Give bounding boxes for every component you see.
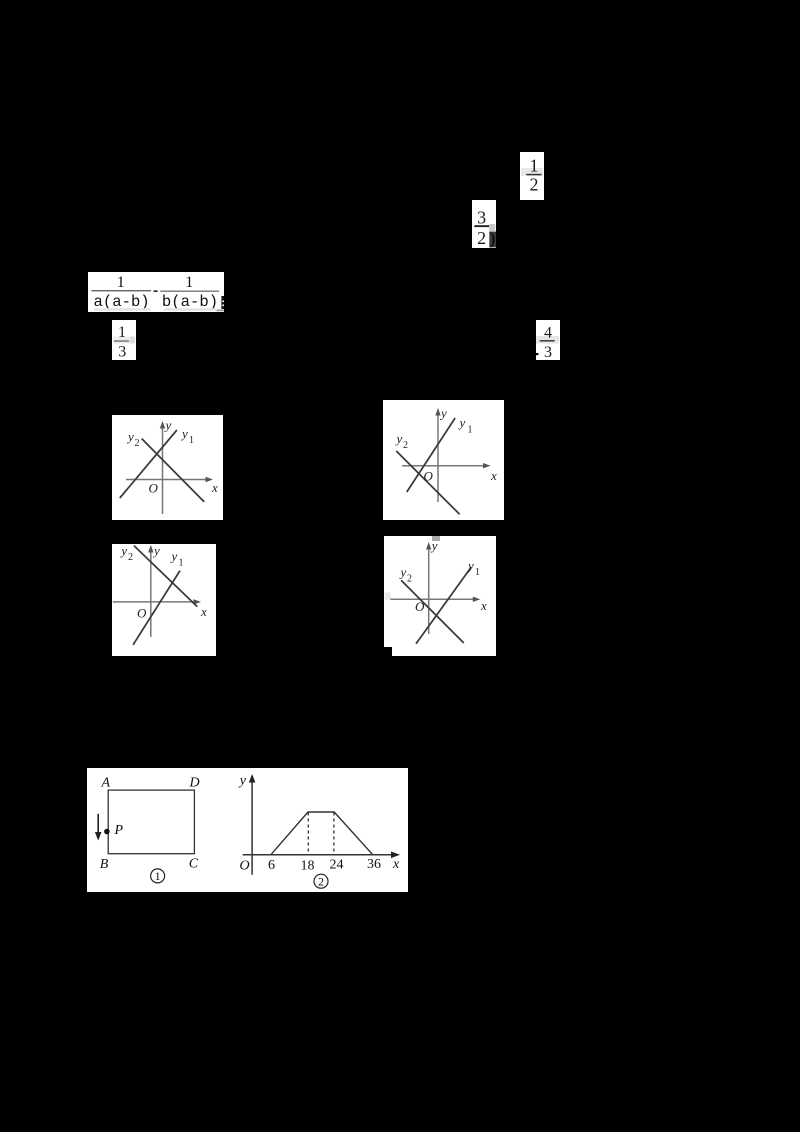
svg-text:O: O: [137, 606, 147, 621]
svg-text:y: y: [439, 406, 447, 421]
line y2 falling: [396, 451, 459, 514]
svg-text:O: O: [149, 481, 159, 496]
x-axis: [126, 479, 209, 481]
graph C (bottom-left option): [112, 544, 216, 656]
svg-text:A: A: [101, 775, 111, 790]
svg-text:1: 1: [179, 558, 184, 569]
svg-text:x: x: [200, 604, 207, 619]
x-axis: [390, 598, 476, 600]
svg-text:36: 36: [367, 857, 381, 872]
svg-text:D: D: [189, 775, 200, 790]
svg-text:2: 2: [407, 574, 412, 585]
svg-text:y: y: [466, 558, 474, 573]
svg-text:y: y: [180, 426, 188, 441]
graph D (bottom-right option): [384, 536, 496, 656]
gray notch left: [385, 592, 391, 599]
svg-text:y: y: [430, 538, 438, 553]
svg-text:1: 1: [155, 869, 161, 883]
svg-text:6: 6: [268, 858, 275, 873]
svg-text:x: x: [392, 857, 400, 872]
svg-text:y: y: [164, 418, 172, 433]
svg-text:3: 3: [118, 344, 126, 360]
svg-text:3: 3: [544, 344, 552, 360]
svg-text:y: y: [126, 429, 134, 444]
svg-text:x: x: [480, 598, 487, 613]
bottom figure: rectangle ABCD and trapezoid graph: [87, 768, 408, 892]
y-axis: [150, 548, 152, 637]
y-axis: [437, 412, 439, 502]
svg-text:y: y: [458, 415, 466, 430]
line y1 rising: [120, 430, 177, 498]
dashed vertical at 18: [307, 813, 309, 855]
line y2 falling: [134, 546, 197, 607]
y-axis: [162, 425, 164, 514]
graph B (top-right option): [383, 400, 504, 520]
svg-text:y: y: [119, 544, 127, 558]
svg-text:18: 18: [301, 859, 315, 874]
svg-text:1: 1: [118, 324, 126, 341]
svg-text:2: 2: [477, 228, 486, 248]
line y1 steep rising: [133, 571, 180, 645]
circled 1: [151, 869, 165, 883]
svg-text:x: x: [490, 468, 497, 483]
x-axis: [402, 465, 486, 467]
y-axis: [428, 546, 430, 634]
svg-text:1: 1: [117, 274, 125, 291]
line y1 steep rising: [407, 418, 455, 492]
point P: [104, 829, 110, 835]
svg-text:y: y: [152, 544, 160, 558]
svg-text:2: 2: [135, 438, 140, 449]
y-axis of graph 2: [251, 779, 253, 875]
svg-text:1: 1: [530, 156, 539, 176]
x-axis: [113, 601, 197, 603]
svg-text:y: y: [395, 431, 403, 446]
svg-text:2: 2: [318, 874, 324, 888]
line y2 falling: [401, 580, 464, 643]
svg-text:y: y: [170, 549, 178, 564]
expression 1/(a(a-b)) - 1/(b(a-b)): [88, 272, 224, 312]
svg-text:1: 1: [185, 274, 193, 291]
svg-text:3: 3: [477, 207, 486, 227]
rectangle ABCD: [108, 790, 194, 854]
fraction 1/2: [520, 152, 544, 200]
svg-text:2: 2: [530, 174, 539, 194]
line y2 falling: [142, 439, 205, 502]
svg-text:y: y: [238, 774, 247, 789]
svg-text:x: x: [211, 480, 218, 495]
svg-text:2: 2: [128, 552, 133, 563]
svg-text:y: y: [399, 565, 407, 580]
svg-text:C: C: [189, 857, 199, 872]
line y1 rising: [416, 567, 471, 644]
svg-text:O: O: [424, 469, 434, 484]
svg-text:O: O: [415, 599, 425, 614]
fraction 1/3: [112, 320, 136, 360]
svg-text:24: 24: [330, 858, 344, 873]
fraction 4/3: [536, 320, 560, 360]
fraction 3/2 with dark ")" patch: [472, 200, 496, 248]
svg-text:4: 4: [544, 324, 552, 341]
svg-text:P: P: [114, 823, 124, 838]
svg-text:1: 1: [189, 435, 194, 446]
svg-text:B: B: [100, 857, 109, 872]
svg-text:1: 1: [468, 425, 473, 436]
svg-text:O: O: [240, 859, 250, 874]
svg-text:): ): [489, 229, 495, 248]
svg-text:1: 1: [475, 567, 480, 578]
down arrow: [97, 814, 99, 835]
trapezoid curve: [271, 812, 373, 855]
graph A (top-left option): [112, 415, 223, 520]
svg-text:2: 2: [403, 440, 408, 451]
black cut corner of graph D: [383, 647, 392, 656]
x-axis of graph 2: [243, 854, 394, 856]
dashed vertical at 24: [333, 813, 335, 855]
circled 2: [314, 874, 328, 888]
gray notch top: [432, 536, 440, 541]
